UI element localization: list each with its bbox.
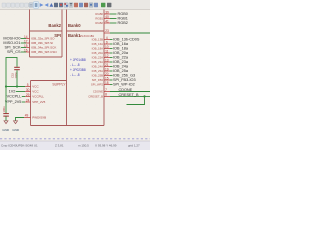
ground 2 <box>14 121 18 124</box>
svg-text:30: 30 <box>26 88 30 92</box>
wire below C15 <box>16 70 18 86</box>
svg-text:IOB_18A: IOB_18A <box>92 47 103 51</box>
junction dot CRESET <box>143 95 145 97</box>
svg-text:IOB_13b-CD0S: IOB_13b-CD0S <box>113 38 140 42</box>
svg-text:IOB_20a: IOB_20a <box>113 51 129 55</box>
svg-text:VCC: VCC <box>32 90 39 94</box>
svg-text:+ JP014B8: + JP014B8 <box>70 58 86 62</box>
pin 10 IOB_18A / wire / net label IOB_18a <box>92 45 129 51</box>
svg-text:m 150,5: m 150,5 <box>78 143 89 147</box>
svg-text:IOB_16a: IOB_16a <box>113 42 129 46</box>
pin 41 RGB2 / wire / net label <box>95 19 127 25</box>
pin 13 IOB_23A / wire / net label IOB_23a <box>92 58 129 64</box>
svg-text:SPI_WP-IO2: SPI_WP-IO2 <box>113 83 135 87</box>
pin 18 SPI_WP2 / wire / net label SPI_WP-IO2 <box>91 81 135 87</box>
svg-text:4: 4 <box>106 36 108 40</box>
wire vertical left <box>5 57 7 113</box>
svg-text:- L-- -8: - L-- -8 <box>70 63 80 67</box>
svg-text:GND: GND <box>12 128 20 132</box>
svg-text:8: 8 <box>105 93 107 97</box>
svg-text:IOB_24a: IOB_24a <box>113 65 129 69</box>
svg-text:- L-- -8: - L-- -8 <box>70 73 80 77</box>
pin 8 CRESET_B / wire / net label <box>88 93 150 99</box>
FPGA unit Bank2 box <box>30 10 63 58</box>
svg-text:VCC: VCC <box>32 85 39 89</box>
FPGA unit SUPPLY box <box>31 81 67 126</box>
svg-text:SPI_SCK: SPI_SCK <box>4 46 21 50</box>
svg-text:19: 19 <box>105 67 109 71</box>
svg-text:PWD/SXB: PWD/SXB <box>32 116 46 120</box>
sheet dashed line <box>0 138 150 140</box>
pin 4 IOB_13B / wire / net label IOB_13b-CD0S <box>92 36 140 42</box>
svg-text:IOB_33b_SPI.SI: IOB_33b_SPI.SI <box>31 41 53 45</box>
svg-text:29: 29 <box>26 93 30 97</box>
svg-text:grid 1,27: grid 1,27 <box>128 143 140 147</box>
status bar <box>0 141 150 150</box>
ground 1 <box>4 121 8 124</box>
svg-text:9: 9 <box>106 40 108 44</box>
svg-text:17: 17 <box>24 39 28 43</box>
pin 23 / wire <box>104 29 150 33</box>
pin 15 IOB_34a_SPI.SCK / net label SPI_SCK / wire <box>4 44 56 50</box>
pin 14 IOB_32a_SPI.SO / net label MOSI-IO0 / wire <box>3 35 55 41</box>
svg-text:23: 23 <box>105 29 109 33</box>
svg-text:24: 24 <box>26 98 30 102</box>
svg-text:13: 13 <box>105 58 109 62</box>
svg-text:MISO-IO1: MISO-IO1 <box>3 41 20 45</box>
svg-text:SPI_FB3: SPI_FB3 <box>92 78 104 82</box>
pin 49 PWD/SXB <box>24 114 46 120</box>
pin 21 IOB_24A / wire / net label IOB_24a <box>92 63 129 69</box>
svg-text:IOB_35b_SPI.CSN: IOB_35b_SPI.CSN <box>31 50 57 54</box>
toolbar <box>0 0 150 10</box>
svg-text:VPP_2V5: VPP_2V5 <box>5 100 21 104</box>
svg-text:15: 15 <box>24 44 28 48</box>
FPGA unit Bank0/Bank1 box <box>67 10 105 126</box>
svg-text:20: 20 <box>105 72 109 76</box>
svg-text:RGB2: RGB2 <box>118 21 128 25</box>
pin 16 IOB_35b_SPI.CSN / net label SPI_CS / wire <box>7 48 57 54</box>
pin 19 IOB_25A / wire / net label IOB_25a <box>92 67 129 73</box>
svg-text:SPI_CS: SPI_CS <box>7 50 21 54</box>
svg-text:11: 11 <box>105 49 109 53</box>
svg-text:49: 49 <box>25 114 29 118</box>
svg-text:MOSI-IO0: MOSI-IO0 <box>3 37 20 41</box>
svg-text:+ JP023B8: + JP023B8 <box>70 68 86 72</box>
svg-text:RGB1: RGB1 <box>95 17 103 21</box>
svg-text:1V2: 1V2 <box>9 90 16 94</box>
wire CRESET branch <box>127 96 145 104</box>
svg-text:VCCPLL: VCCPLL <box>7 95 22 99</box>
capacitor C16 <box>2 106 9 116</box>
svg-text:16: 16 <box>24 48 28 52</box>
svg-text:IOB_25A: IOB_25A <box>92 69 103 73</box>
svg-text:IOB_18a: IOB_18a <box>113 47 129 51</box>
svg-text:7: 7 <box>105 88 107 92</box>
svg-text:IOB_25a: IOB_25a <box>113 69 129 73</box>
svg-text:X 93,98 Y 46,99: X 93,98 Y 46,99 <box>95 143 117 147</box>
pin 7 CDONE / wire / net label <box>93 88 150 94</box>
svg-text:IOB_13B: IOB_13B <box>92 38 103 42</box>
svg-text:SPI_FB3-IO3: SPI_FB3-IO3 <box>113 78 136 82</box>
pin 12 IOB_22A / wire / net label IOB_22a <box>92 54 129 60</box>
junction dot left <box>5 85 7 87</box>
svg-text:IOB_22A: IOB_22A <box>92 56 103 60</box>
pin 9 IOB_16A / wire / net label IOB_16a <box>92 40 129 46</box>
svg-text:CDONE: CDONE <box>119 88 133 92</box>
pin 5 VCC / wire <box>6 83 39 89</box>
svg-text:39: 39 <box>105 10 109 14</box>
pin 24 VPP_2V5 / wire <box>5 98 46 104</box>
svg-text:CRESET_B: CRESET_B <box>119 93 140 97</box>
wire horizontal cap top <box>6 57 17 59</box>
pin 15 SPI_FB3 / wire / net label SPI_FB3-IO3 <box>92 76 136 82</box>
svg-text:15: 15 <box>105 76 109 80</box>
svg-text:VPP_2V5: VPP_2V5 <box>32 100 45 104</box>
svg-text:10: 10 <box>105 45 109 49</box>
svg-text:IOB_34a_SPI.SCK: IOB_34a_SPI.SCK <box>31 46 56 50</box>
svg-text:RGB2: RGB2 <box>95 21 103 25</box>
svg-text:RGB0: RGB0 <box>95 12 103 16</box>
svg-text:12: 12 <box>105 54 109 58</box>
svg-text:IOB_25B: IOB_25B <box>92 74 103 78</box>
canvas background <box>0 0 150 150</box>
pin 29 VCCPLL / wire <box>7 93 45 99</box>
svg-text:IOB_20A: IOB_20A <box>92 51 103 55</box>
svg-text:CDONE: CDONE <box>93 90 103 94</box>
svg-text:5: 5 <box>27 83 29 87</box>
svg-text:40: 40 <box>105 15 109 19</box>
svg-text:IOB_22a: IOB_22a <box>113 56 129 60</box>
capacitor C15 <box>11 67 20 78</box>
wire vertical mid upper <box>16 57 18 67</box>
svg-text:100n: 100n <box>2 106 6 113</box>
svg-text:RGB1: RGB1 <box>118 17 128 21</box>
svg-text:IOB_32a_SPI.SO: IOB_32a_SPI.SO <box>31 37 55 41</box>
svg-text:CRESET_B: CRESET_B <box>88 94 103 98</box>
svg-text:18: 18 <box>105 81 109 85</box>
junction dot mid <box>16 85 18 87</box>
pin 30 VCC / wire <box>9 88 40 94</box>
svg-text:Bank0: Bank0 <box>68 23 81 28</box>
svg-text:Bank2: Bank2 <box>48 23 61 28</box>
pin 11 IOB_20A / wire / net label IOB_20a <box>92 49 129 55</box>
pin 20 IOB_25B / wire / net label IOB_25b_G3 <box>92 72 136 78</box>
svg-text:GND: GND <box>2 128 10 132</box>
svg-text:IOB_16A: IOB_16A <box>92 42 103 46</box>
svg-text:IOB_23A: IOB_23A <box>92 60 103 64</box>
svg-text:21: 21 <box>105 63 109 67</box>
svg-text:IOB_25b_G3: IOB_25b_G3 <box>113 74 135 78</box>
svg-text:SPI_WP2: SPI_WP2 <box>91 83 104 87</box>
svg-text:RGB0: RGB0 <box>118 12 128 16</box>
pin 39 RGB0 / wire / net label <box>95 10 127 16</box>
wire pin49 to ground 2 <box>16 118 25 121</box>
svg-text:IOB_23a: IOB_23a <box>113 60 129 64</box>
pin 17 IOB_33b_SPI.SI / net label MISO-IO1 / wire <box>3 39 53 45</box>
pin 40 RGB1 / wire / net label <box>95 15 127 21</box>
svg-text:14: 14 <box>24 35 28 39</box>
svg-text:VCCPLL: VCCPLL <box>32 95 44 99</box>
svg-text:Cmp ICE40UP5K-SG48 U1: Cmp ICE40UP5K-SG48 U1 <box>1 143 38 147</box>
svg-text:41: 41 <box>105 19 109 23</box>
svg-text:IOB_24A: IOB_24A <box>92 65 103 69</box>
svg-text:Z 3,81: Z 3,81 <box>55 143 64 147</box>
wire below C16 <box>5 116 7 120</box>
svg-text:SUPPLY: SUPPLY <box>52 83 66 87</box>
svg-text:SPI: SPI <box>54 33 61 38</box>
